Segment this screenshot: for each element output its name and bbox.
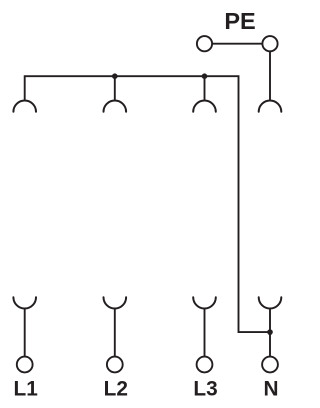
wire PE bridge (205, 43, 271, 45)
wire drop to socket 3 (204, 76, 206, 101)
connector plug bottom L1 (13, 297, 36, 308)
svg-text:PE: PE (224, 8, 255, 34)
svg-text:L1: L1 (14, 377, 38, 400)
terminal circle L3 (197, 357, 213, 373)
svg-text:L3: L3 (193, 377, 217, 400)
terminal circle PE right (262, 36, 277, 51)
svg-text:N: N (263, 377, 278, 400)
connector socket top column 4 PE (259, 101, 282, 112)
connector socket top column 3 (193, 101, 216, 112)
wire PE to socket N/PE column (269, 44, 271, 101)
terminal circle PE left (197, 36, 212, 51)
connector plug bottom N (259, 297, 282, 308)
connector socket top column 1 (13, 101, 36, 112)
wire drop to socket 2 (114, 76, 116, 101)
svg-text:L2: L2 (104, 377, 128, 400)
terminal circle N (262, 357, 278, 373)
wire L1 terminal riser (24, 308, 26, 357)
junction dot N riser (267, 329, 273, 335)
wire bus L-drop-1 + horizontal bus + right riser to N (25, 76, 270, 332)
connector socket top column 2 (104, 101, 127, 112)
wire L3 terminal riser (204, 308, 206, 357)
junction dot bus / socket 3 (202, 73, 208, 79)
junction dot bus / socket 2 (112, 73, 118, 79)
wire N terminal riser (269, 308, 271, 357)
wire L2 terminal riser (114, 308, 116, 357)
terminal circle L2 (107, 357, 123, 373)
connector plug bottom L3 (193, 297, 216, 308)
terminal circle L1 (17, 357, 33, 373)
connector plug bottom L2 (104, 297, 127, 308)
